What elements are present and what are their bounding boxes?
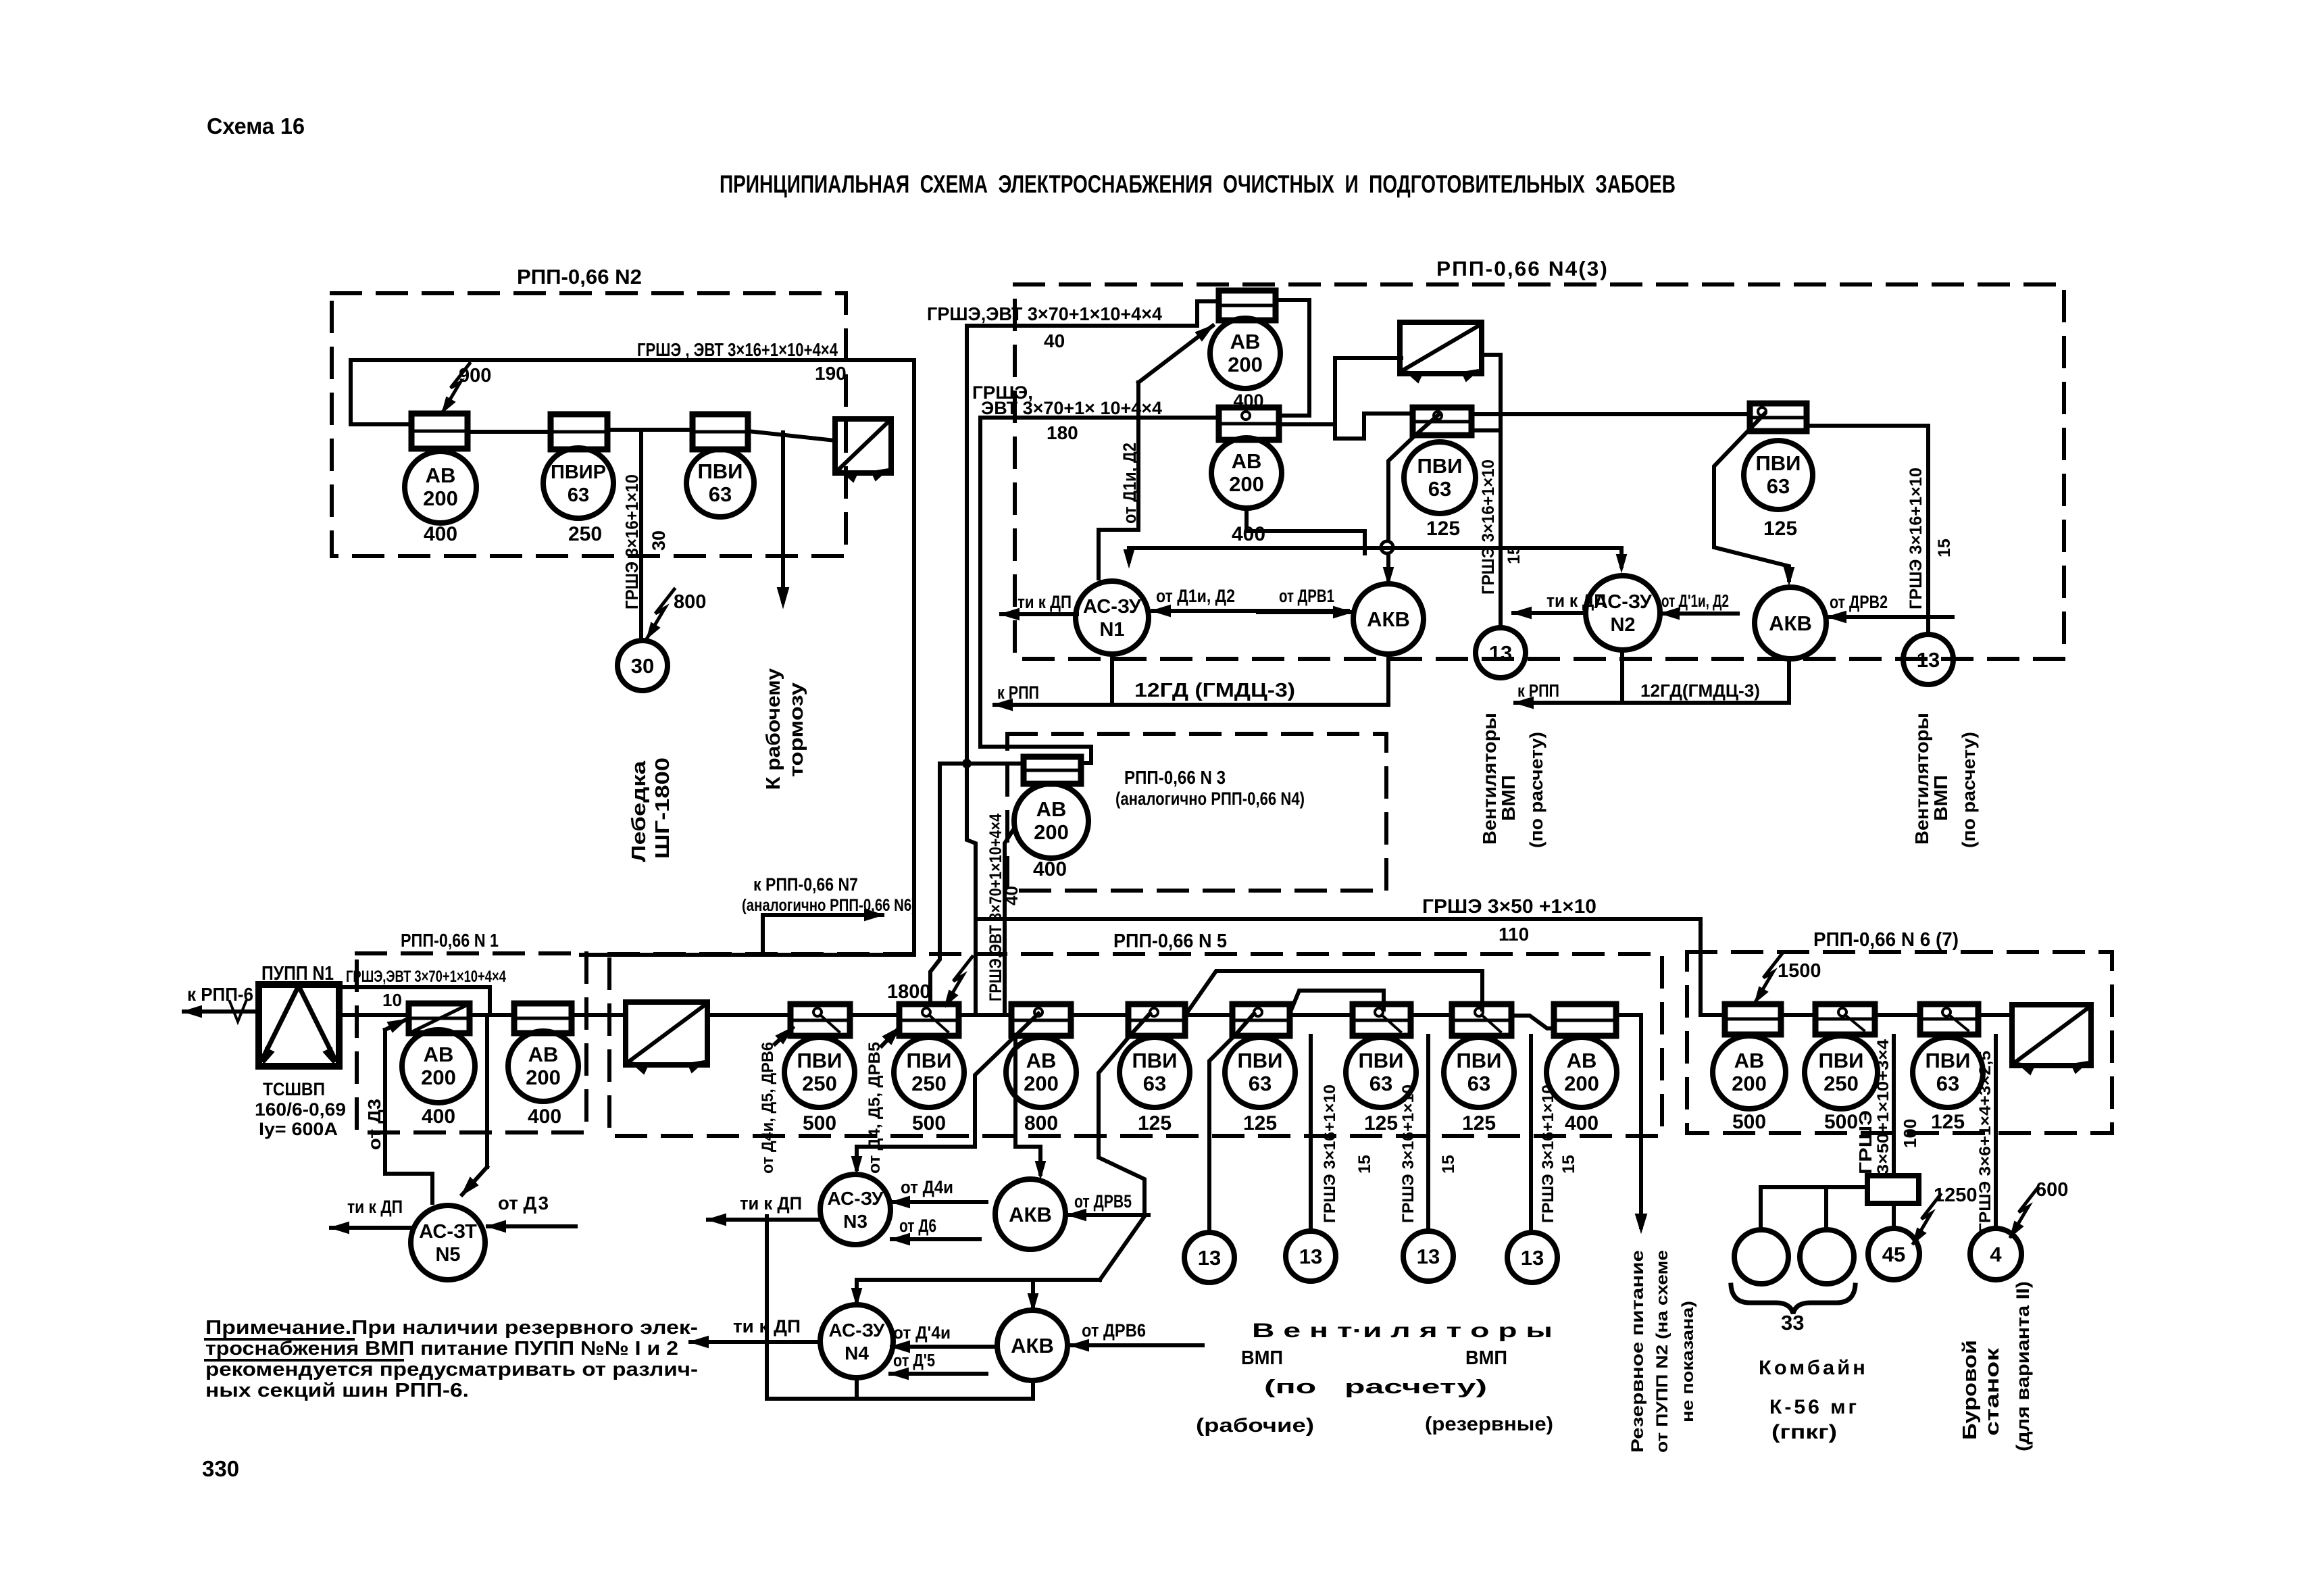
svg-text:АС-ЗУ: АС-ЗУ [828,1188,884,1209]
svg-text:ПРИНЦИПИАЛЬНАЯ СХЕМА ЭЛЕКТРО: ПРИНЦИПИАЛЬНАЯ СХЕМА ЭЛЕКТРОСНАБЖЕНИЯ ОЧ… [720,170,1676,198]
svg-text:45: 45 [1882,1243,1905,1266]
svg-text:РПП-0,66 N4(3): РПП-0,66 N4(3) [1436,257,1609,280]
svg-text:15: 15 [1505,545,1524,564]
svg-text:ВМП: ВМП [1465,1347,1507,1369]
svg-text:200: 200 [423,487,458,510]
svg-text:(по расчету): (по расчету) [1526,732,1546,848]
svg-text:200: 200 [526,1066,561,1089]
svg-text:ти к ДП: ти к ДП [740,1193,802,1214]
svg-text:ТСШВП: ТСШВП [263,1079,325,1099]
svg-text:ГРШЭ 3×16+1×10: ГРШЭ 3×16+1×10 [1539,1084,1557,1223]
svg-text:(по расчету): (по расчету) [1959,732,1979,848]
svg-text:АКВ: АКВ [1011,1334,1054,1357]
svg-text:200: 200 [1732,1072,1767,1095]
svg-text:к РПП-0,66 N7: к РПП-0,66 N7 [753,874,858,895]
svg-text:Примечание.При наличии резервн: Примечание.При наличии резервного элек- [205,1317,698,1339]
svg-text:АКВ: АКВ [1009,1203,1052,1226]
svg-text:Вентиляторы: Вентиляторы [1911,713,1932,845]
svg-text:(по расчету): (по расчету) [1264,1376,1487,1398]
svg-text:10: 10 [382,990,402,1010]
svg-text:N5: N5 [435,1244,460,1266]
svg-text:125: 125 [1426,518,1460,540]
svg-text:от ДРВ5: от ДРВ5 [1074,1191,1132,1212]
svg-text:ВМП: ВМП [1241,1347,1283,1369]
svg-text:тормозу: тормозу [786,682,807,777]
svg-text:ти к ДП: ти к ДП [1546,591,1606,611]
svg-text:от ДРВ1: от ДРВ1 [1279,586,1334,606]
svg-text:ГРШЭ 3×16+1×10: ГРШЭ 3×16+1×10 [1907,468,1926,609]
svg-text:N4: N4 [845,1343,869,1364]
svg-text:13: 13 [1417,1245,1440,1268]
svg-text:(аналогично РПП-0,66 N4): (аналогично РПП-0,66 N4) [1115,789,1305,809]
svg-text:500: 500 [1732,1111,1766,1133]
svg-text:ВМП: ВМП [1498,775,1519,821]
svg-text:от Д1и, Д2: от Д1и, Д2 [1156,586,1235,606]
svg-text:13: 13 [1299,1245,1322,1268]
svg-text:1800: 1800 [887,981,931,1003]
svg-text:не показана): не показана) [1679,1301,1697,1422]
svg-text:к РПП-6: к РПП-6 [187,984,253,1005]
svg-text:15: 15 [1559,1155,1578,1174]
svg-text:125: 125 [1138,1112,1172,1134]
svg-text:ПВИ: ПВИ [1132,1049,1178,1072]
svg-text:12ГД(ГМДЦ-3): 12ГД(ГМДЦ-3) [1640,680,1760,701]
svg-text:ШГ-1800: ШГ-1800 [652,757,674,859]
svg-text:110: 110 [1499,924,1529,945]
svg-text:от Д4и, Д5, ДРВ6: от Д4и, Д5, ДРВ6 [759,1042,777,1174]
svg-text:63: 63 [1936,1072,1959,1095]
svg-text:Резервное питание: Резервное питание [1628,1250,1647,1453]
svg-text:63: 63 [1143,1072,1166,1095]
svg-text:900: 900 [459,365,491,386]
svg-text:от ДРВ2: от ДРВ2 [1830,592,1888,612]
svg-text:500: 500 [912,1112,946,1134]
svg-text:200: 200 [1228,353,1263,376]
svg-text:АВ: АВ [1734,1049,1765,1072]
svg-text:АКВ: АКВ [1367,607,1410,631]
svg-text:63: 63 [709,482,732,506]
svg-text:ПВИ: ПВИ [1756,451,1801,475]
svg-text:200: 200 [421,1066,456,1089]
svg-text:ГРШЭ: ГРШЭ [1855,1110,1876,1174]
svg-text:800: 800 [674,591,706,613]
svg-text:250: 250 [911,1072,947,1095]
svg-text:В е н т·и л я т о р ы: В е н т·и л я т о р ы [1252,1320,1553,1342]
svg-text:250: 250 [802,1072,837,1095]
svg-text:ти к ДП: ти к ДП [347,1197,403,1217]
svg-text:400: 400 [424,523,457,545]
svg-text:Вентиляторы: Вентиляторы [1479,713,1500,845]
svg-text:РПП-0,66 N 5: РПП-0,66 N 5 [1113,930,1227,952]
svg-text:(рабочие): (рабочие) [1196,1415,1314,1437]
svg-text:200: 200 [1564,1072,1599,1095]
svg-text:ЭВТ 3×70+1× 10+4×4: ЭВТ 3×70+1× 10+4×4 [981,398,1162,418]
svg-text:15: 15 [1935,539,1954,557]
svg-text:АВ: АВ [1026,1049,1057,1072]
svg-text:ПВИ: ПВИ [1417,454,1463,478]
svg-text:N3: N3 [843,1211,867,1232]
svg-text:200: 200 [1024,1072,1059,1095]
svg-text:РПП-0,66 N 6 (7): РПП-0,66 N 6 (7) [1813,929,1959,951]
svg-text:30: 30 [631,654,654,678]
svg-text:ПВИ: ПВИ [797,1049,842,1072]
svg-text:АС-ЗТ: АС-ЗТ [419,1221,477,1243]
svg-text:ГРШЭ 3×16+1×10: ГРШЭ 3×16+1×10 [1479,459,1498,595]
svg-text:Лебедка: Лебедка [628,760,650,862]
svg-text:от Д3: от Д3 [364,1099,384,1150]
svg-text:125: 125 [1931,1111,1965,1133]
svg-text:63: 63 [1369,1072,1392,1095]
svg-text:3×50+1×10+3×4: 3×50+1×10+3×4 [1874,1039,1892,1174]
svg-text:12ГД (ГМДЦ-3): 12ГД (ГМДЦ-3) [1134,680,1295,701]
svg-text:ПВИР: ПВИР [551,462,606,483]
svg-text:от Д6: от Д6 [899,1216,936,1236]
svg-text:400: 400 [1565,1112,1599,1134]
svg-text:63: 63 [1767,474,1790,498]
svg-text:125: 125 [1364,1112,1398,1134]
svg-text:(для варианта II): (для варианта II) [2013,1281,2033,1451]
svg-text:(гпкг): (гпкг) [1771,1421,1837,1443]
svg-text:РПП-0,66 N 1: РПП-0,66 N 1 [401,930,499,951]
svg-text:ПВИ: ПВИ [1926,1049,1971,1072]
svg-text:40: 40 [1044,330,1065,351]
svg-text:от ДРВ6: от ДРВ6 [1082,1320,1146,1341]
svg-text:ГРШЭ 3×6+1×4+3×2,5: ГРШЭ 3×6+1×4+3×2,5 [1976,1051,1994,1233]
svg-text:АВ: АВ [1036,797,1067,821]
svg-text:200: 200 [1229,472,1264,496]
svg-text:АВ: АВ [424,1043,454,1066]
svg-text:4: 4 [1990,1243,2002,1266]
svg-text:рекомендуется предусматривать: рекомендуется предусматривать от различ- [205,1359,698,1380]
svg-text:Комбайн: Комбайн [1759,1357,1868,1379]
svg-text:13: 13 [1198,1246,1221,1270]
svg-text:13: 13 [1917,648,1940,672]
svg-text:РПП-0,66 N2: РПП-0,66 N2 [517,265,642,289]
svg-text:600: 600 [2036,1179,2068,1201]
svg-text:63: 63 [1467,1072,1490,1095]
svg-text:АВ: АВ [1230,330,1261,353]
svg-text:АВ: АВ [528,1043,559,1066]
svg-text:станок: станок [1982,1347,2003,1436]
svg-text:Буровой: Буровой [1959,1340,1981,1440]
svg-text:от ПУПП N2 (на схеме: от ПУПП N2 (на схеме [1653,1250,1671,1453]
svg-text:63: 63 [1249,1072,1272,1095]
svg-text:1250: 1250 [1934,1184,1978,1206]
svg-text:ПВИ: ПВИ [1457,1049,1502,1072]
svg-text:к РПП: к РПП [1517,680,1559,701]
svg-text:30: 30 [649,530,669,551]
svg-text:АВ: АВ [1232,449,1262,473]
svg-text:330: 330 [202,1456,239,1481]
svg-text:ти к ДП: ти к ДП [1017,592,1072,612]
svg-text:N2: N2 [1610,614,1635,636]
svg-text:63: 63 [1428,477,1451,501]
svg-text:ГРШЭ 3×16+1×10: ГРШЭ 3×16+1×10 [1321,1084,1339,1223]
svg-text:АС-ЗУ: АС-ЗУ [1083,596,1142,618]
svg-text:ГРШЭ 3×16+1×10: ГРШЭ 3×16+1×10 [1399,1084,1417,1223]
svg-text:200: 200 [1034,820,1069,844]
svg-text:ГРШЭ 3×50 +1×10: ГРШЭ 3×50 +1×10 [1422,896,1596,918]
svg-text:от Д4, Д5, ДРВ5: от Д4, Д5, ДРВ5 [865,1042,884,1174]
svg-text:К-56 мг: К-56 мг [1769,1396,1859,1418]
svg-text:400: 400 [528,1105,561,1128]
svg-text:125: 125 [1243,1112,1277,1134]
svg-text:от Д 3: от Д 3 [498,1193,549,1214]
svg-text:АКВ: АКВ [1769,612,1812,635]
svg-text:ПВИ: ПВИ [1359,1049,1404,1072]
svg-text:250: 250 [1823,1072,1859,1095]
svg-text:500: 500 [803,1112,836,1134]
svg-text:13: 13 [1521,1246,1544,1270]
svg-text:АВ: АВ [426,464,456,487]
svg-text:100: 100 [1900,1119,1920,1148]
svg-text:ГРШЭ 3×16+1×10: ГРШЭ 3×16+1×10 [622,474,642,609]
svg-text:ГРШЭ,ЭВТ 3×70+1×10+4×4: ГРШЭ,ЭВТ 3×70+1×10+4×4 [986,814,1005,1001]
svg-text:40: 40 [1001,886,1022,905]
svg-text:15: 15 [1355,1155,1374,1174]
svg-text:N1: N1 [1099,619,1124,641]
svg-text:ВМП: ВМП [1930,775,1951,821]
svg-text:ГРШЭ , ЭВТ 3×16+1×10+4×4: ГРШЭ , ЭВТ 3×16+1×10+4×4 [637,339,838,360]
svg-text:125: 125 [1763,518,1797,540]
svg-text:(резервные): (резервные) [1425,1414,1553,1435]
svg-text:63: 63 [568,484,589,506]
svg-text:от Д'4и: от Д'4и [893,1322,951,1343]
svg-text:АВ: АВ [1567,1049,1597,1072]
svg-text:800: 800 [1024,1112,1058,1134]
svg-text:ПВИ: ПВИ [907,1049,952,1072]
svg-text:К рабочему: К рабочему [763,668,784,790]
svg-text:400: 400 [1033,858,1067,880]
svg-text:1500: 1500 [1778,960,1821,982]
svg-text:ГРШЭ,ЭВТ 3×70+1×10+4×4: ГРШЭ,ЭВТ 3×70+1×10+4×4 [346,968,506,986]
svg-text:500: 500 [1824,1111,1858,1133]
svg-text:180: 180 [1047,422,1078,443]
svg-text:160/6-0,69: 160/6-0,69 [255,1099,346,1120]
svg-text:ПВИ: ПВИ [1238,1049,1283,1072]
svg-text:РПП-0,66 N 3: РПП-0,66 N 3 [1124,767,1226,788]
svg-text:ГРШЭ,ЭВТ 3×70+1×10+4×4: ГРШЭ,ЭВТ 3×70+1×10+4×4 [927,303,1162,324]
svg-text:33: 33 [1781,1311,1804,1335]
svg-text:к РПП: к РПП [997,682,1039,703]
svg-text:от Д'5: от Д'5 [893,1350,935,1370]
svg-text:от Д1и, Д2: от Д1и, Д2 [1120,443,1140,524]
svg-text:190: 190 [815,363,847,384]
svg-text:троснабжения ВМП питание ПУПП: троснабжения ВМП питание ПУПП №№ I и 2 [205,1338,678,1360]
svg-text:400: 400 [422,1105,455,1128]
svg-text:от Д'1и, Д2: от Д'1и, Д2 [1661,591,1729,611]
svg-text:от Д4и: от Д4и [901,1177,953,1197]
svg-text:ПВИ: ПВИ [698,459,743,483]
svg-text:13: 13 [1489,641,1512,665]
svg-text:Схема 16: Схема 16 [207,114,305,139]
svg-text:15: 15 [1439,1155,1458,1174]
svg-text:(аналогично РПП-0,66 N6): (аналогично РПП-0,66 N6) [742,896,916,915]
svg-text:ных секций шин РПП-6.: ных секций шин РПП-6. [205,1380,469,1401]
svg-text:125: 125 [1462,1112,1496,1134]
svg-text:250: 250 [568,523,602,545]
svg-text:АС-ЗУ: АС-ЗУ [829,1320,886,1341]
svg-text:ПВИ: ПВИ [1819,1049,1864,1072]
svg-text:Iу= 600А: Iу= 600А [259,1119,338,1139]
